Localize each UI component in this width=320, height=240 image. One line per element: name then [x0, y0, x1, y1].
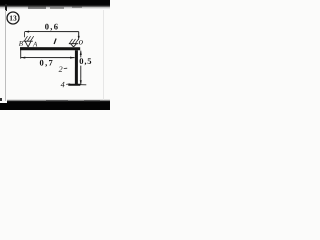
bottom band left white notch [0, 99, 7, 103]
right faint vertical line [103, 10, 104, 100]
bottom band ragged streaks [46, 100, 68, 102]
foot thin extension [80, 84, 86, 86]
svg-text:13: 13 [9, 13, 17, 22]
support at A : ground line [23, 40, 33, 42]
figure number circle 13 [7, 12, 19, 24]
support at A : pin V [25, 41, 28, 47]
support at O : hatches [69, 39, 72, 44]
top band ragged streaks [28, 6, 46, 9]
support at A : hatches [24, 36, 27, 41]
support at O : pin V [71, 44, 74, 47]
svg-text:2: 2 [59, 65, 63, 74]
beam AB (part 1) [20, 47, 80, 50]
dimension 0,5 line [80, 51, 82, 58]
svg-text:A: A [32, 40, 38, 48]
dimension 0,7 line [20, 50, 22, 59]
label 1 (slanted stroke) [54, 38, 56, 44]
left faint vertical line [5, 10, 6, 101]
dimension 0,6 line [25, 31, 79, 33]
svg-text:B: B [19, 40, 24, 48]
bottom scan band [0, 99, 110, 110]
svg-text:4: 4 [61, 80, 65, 89]
vertical bar (part 2) [75, 50, 78, 84]
svg-text:0,5: 0,5 [79, 56, 92, 66]
support at O : ground line [69, 43, 78, 45]
svg-text:0,7: 0,7 [40, 57, 55, 67]
top scan band [0, 0, 110, 10]
svg-text:o: o [79, 36, 84, 46]
foot (part 4) [68, 84, 80, 86]
left page-edge dark mark [5, 4, 7, 11]
bottom-left edge dark speck [0, 98, 2, 101]
svg-text:0,6: 0,6 [45, 21, 60, 31]
